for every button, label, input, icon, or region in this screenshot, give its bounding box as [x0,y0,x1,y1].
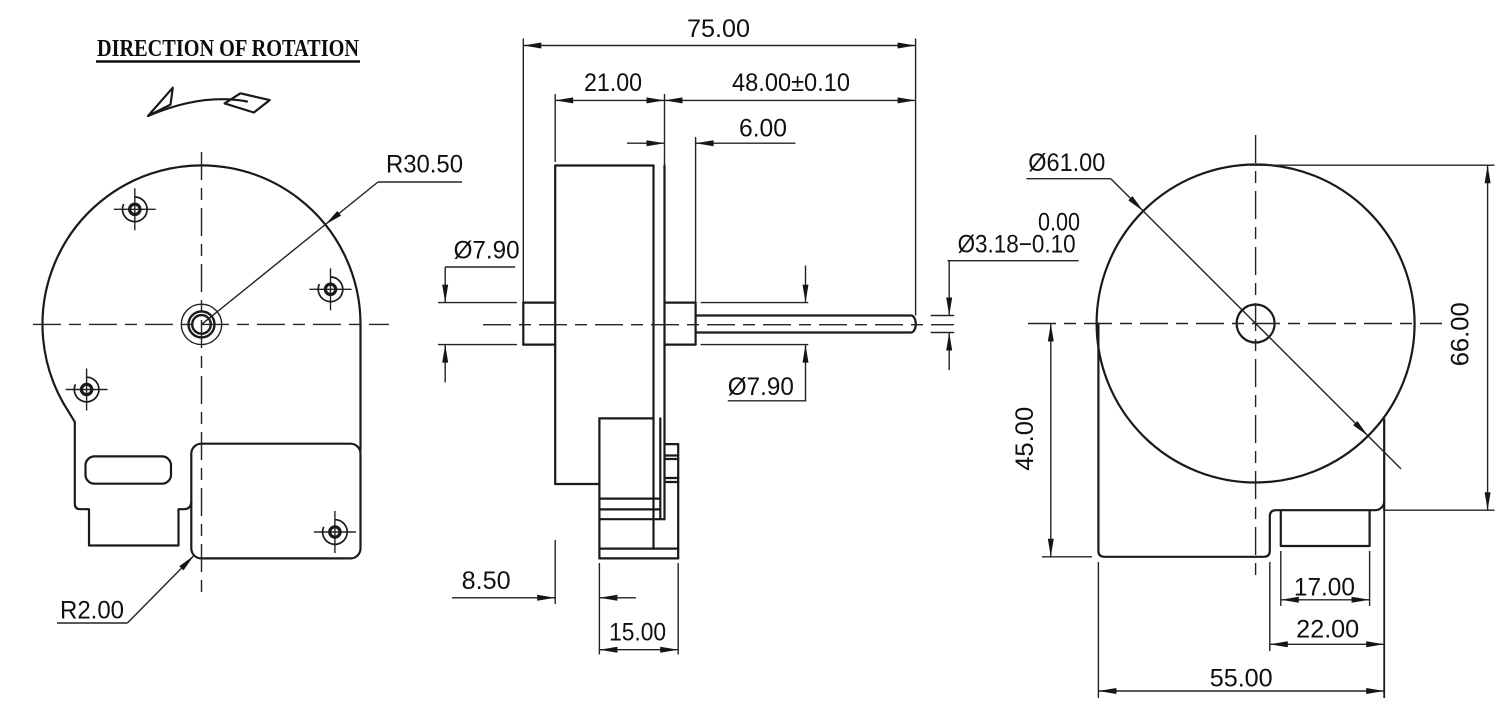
motor body circle front view [42,165,360,403]
dimension 22.00 [1270,510,1384,698]
terminal pins [665,444,679,482]
leader R30.50 [202,151,464,325]
dimension 8.50 [452,540,636,604]
body outline side view [555,166,664,549]
dimension 45.00 [1011,324,1092,557]
rear view vertical centerline [1255,135,1257,578]
dimension 17.00 [1281,551,1370,606]
svg-text:DIRECTION OF ROTATION: DIRECTION OF ROTATION [97,36,360,62]
dimension 48.00±0.10 [665,69,916,103]
gearbox cover rounded rectangle [191,444,360,559]
dimension 66.00 [1250,165,1495,510]
front bearing hub [665,303,696,345]
dimension Ø3.18 shaft [931,209,1080,371]
body lower-left outline with mounting tab [64,404,192,546]
svg-text:Ø7.90: Ø7.90 [728,373,794,401]
slot opening [86,456,172,483]
svg-text:Ø7.90: Ø7.90 [454,237,520,265]
screw hole lower left [66,369,108,411]
front view horizontal centerline [33,323,389,325]
screw hole upper left [114,188,156,230]
svg-text:R2.00: R2.00 [60,597,124,625]
rotation arrow [148,88,270,116]
svg-text:45.00: 45.00 [1011,407,1039,471]
screw hole right [310,268,352,310]
leader Ø61.00 [1026,149,1401,469]
svg-text:8.50: 8.50 [462,567,511,595]
screw hole gearbox [314,511,356,553]
rear view horizontal centerline [1028,323,1442,325]
dimension Ø7.90 hub [701,266,809,402]
svg-text:22.00: 22.00 [1296,616,1359,644]
rear shaft circle [1237,305,1275,343]
rear shaft stub [523,303,555,345]
svg-text:Ø61.00: Ø61.00 [1028,149,1105,177]
motor circle rear view [1097,165,1415,483]
svg-text:R30.50: R30.50 [386,151,463,179]
svg-text:15.00: 15.00 [609,619,666,647]
dimension 75.00 [523,15,915,316]
dimension 55.00 [1098,562,1384,698]
dimension 21.00 [555,69,664,165]
notch fillet [1375,501,1384,510]
connector recess [1281,510,1370,546]
leader R2.00 [57,553,196,624]
rear body outline [1098,324,1374,557]
body right edge [359,324,361,450]
output shaft [696,316,916,333]
svg-text:48.00±0.10: 48.00±0.10 [732,69,850,97]
front view vertical centerline [201,152,203,597]
svg-text:21.00: 21.00 [584,69,642,97]
svg-text:0.00: 0.00 [1038,209,1080,237]
terminal block [599,418,678,558]
svg-text:6.00: 6.00 [739,115,787,143]
dimension 6.00 [627,115,795,303]
rear body right edge [1383,420,1385,511]
svg-text:75.00: 75.00 [687,15,750,43]
svg-text:55.00: 55.00 [1210,665,1273,693]
dimension Ø7.90 rear stub [438,237,520,383]
shaft hub concentric circles [181,304,221,344]
title DIRECTION OF ROTATION [96,36,360,62]
dimension 15.00 [599,563,678,655]
svg-text:17.00: 17.00 [1294,574,1355,602]
svg-text:66.00: 66.00 [1447,302,1475,366]
side view centerline [483,324,954,326]
